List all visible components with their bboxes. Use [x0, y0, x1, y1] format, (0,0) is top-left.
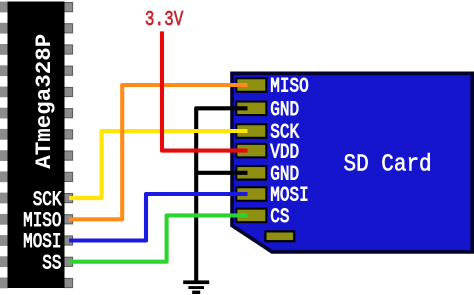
SD Card module body	[232, 73, 472, 252]
SD pad VDD	[236, 144, 266, 158]
wire 3.3V net (red, supply to SD VDD)	[162, 31, 248, 150]
SD bottom pad	[265, 231, 294, 241]
IC U1 ATmega328P left pin column	[0, 2, 8, 289]
SD pad MISO	[236, 78, 266, 92]
wire MOSI net (blue, U1 MOSI to SD MOSI)	[69, 194, 248, 241]
net label 3.3V	[145, 7, 184, 32]
svg-text:VDD: VDD	[270, 141, 299, 164]
IC U1 ATmega328P body	[8, 2, 65, 289]
SD pad MOSI	[236, 187, 266, 201]
IC U1 ATmega328P right pin column	[64, 3, 73, 288]
wire SCK net (yellow, U1 SCK to SD SCK)	[69, 131, 248, 198]
wire GND net (black trunk, U1 GND to SD GND pads and earth)	[196, 108, 247, 282]
svg-text:ATmega328P: ATmega328P	[31, 34, 57, 169]
svg-text:3.3V: 3.3V	[145, 7, 184, 32]
svg-text:SCK: SCK	[33, 188, 62, 211]
svg-text:SS: SS	[42, 252, 61, 275]
svg-text:SD Card: SD Card	[344, 150, 432, 178]
svg-text:GND: GND	[270, 163, 299, 186]
SD pad GND (upper)	[236, 102, 266, 116]
svg-text:MOSI: MOSI	[270, 184, 308, 207]
wire SS net (green, U1 SS to SD CS)	[69, 215, 248, 261]
svg-text:MISO: MISO	[23, 209, 61, 232]
wire MISO net (orange, U1 MISO to SD MISO)	[69, 85, 248, 219]
svg-text:MISO: MISO	[270, 75, 308, 98]
svg-text:MOSI: MOSI	[23, 230, 61, 253]
svg-text:GND: GND	[270, 98, 299, 121]
svg-text:CS: CS	[270, 205, 289, 228]
IC U1 label ATmega328P	[31, 34, 57, 169]
SD pad SCK	[236, 124, 266, 138]
SD Card module title text	[344, 150, 432, 178]
ground symbol	[183, 280, 209, 294]
SD pad CS	[236, 209, 266, 223]
SD pad GND (lower)	[236, 166, 266, 180]
